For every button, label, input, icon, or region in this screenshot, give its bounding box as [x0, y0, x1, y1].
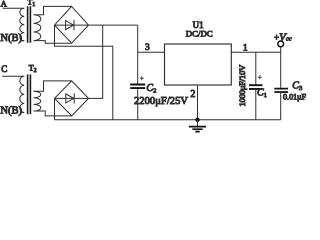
- wire T1 secondary top to bridge top corner: [34, 6, 72, 14]
- wire T2 bridge negative: left corner down to ground rail: [54, 98, 56, 119]
- transformer T2 secondary winding: [34, 91, 41, 111]
- wire T1 bridge negative: left corner down, right, down to ground rail: [55, 25, 113, 120]
- svg-text:C: C: [1, 64, 7, 74]
- ground rail wire: [55, 119, 281, 121]
- svg-text:DC/DC: DC/DC: [186, 28, 213, 38]
- capacitor C3 plates: [274, 89, 288, 92]
- svg-text:T1: T1: [27, 0, 35, 8]
- wire N(B) to T1 primary bottom: [21, 40, 24, 42]
- wire pin 2 to ground rail: [197, 85, 199, 120]
- svg-text:2200μF/25V: 2200μF/25V: [134, 96, 188, 107]
- svg-text:C3: C3: [292, 80, 302, 92]
- output terminal circle: [278, 41, 284, 47]
- wire positive bus drop to pin3 / C2: [137, 25, 139, 84]
- capacitor C2 plates: [130, 85, 145, 89]
- wire pin 3: [138, 51, 165, 53]
- svg-text:T2: T2: [29, 64, 37, 74]
- svg-text:A: A: [1, 0, 8, 9]
- bridge rectifier D2 (T2) diamond: [55, 81, 89, 116]
- junction dot at ground: [195, 118, 199, 122]
- capacitor C1 bottom lead: [255, 90, 257, 120]
- bridge rectifier D1 (T1) diamond: [55, 6, 89, 43]
- svg-text:2: 2: [190, 89, 195, 100]
- transformer T2 core: [28, 74, 31, 114]
- wire T2 secondary top to bridge top corner: [34, 81, 72, 91]
- wire terminal down to C3: [280, 47, 282, 88]
- capacitor C1 top lead: [255, 52, 257, 84]
- svg-text:0.01μF: 0.01μF: [283, 92, 307, 101]
- wire A to T1 primary top: [3, 7, 25, 9]
- wire T2 bridge positive: right corner to positive bus: [89, 25, 103, 98]
- bridge D1 diode symbol: [55, 20, 89, 30]
- svg-text:1000μF/10V: 1000μF/10V: [237, 64, 247, 107]
- transformer T2 primary winding: [20, 76, 24, 112]
- transformer T1 secondary winding: [34, 15, 41, 41]
- svg-text:C2: C2: [146, 83, 156, 95]
- wire T2 secondary bottom to bridge bottom corner: [34, 111, 72, 116]
- svg-text:N(B): N(B): [0, 33, 22, 44]
- ground symbol: [197, 120, 199, 126]
- wire positive bus from T1 bridge right corner: [89, 24, 138, 26]
- capacitor C2 plus sign: [140, 76, 144, 80]
- wire T1 secondary bottom to bridge bottom corner: [34, 41, 72, 44]
- svg-text:N(B): N(B): [0, 105, 22, 116]
- transformer T1 core: [28, 6, 31, 43]
- transformer T1 primary winding: [20, 8, 24, 41]
- wire pin 1 to output terminal: [231, 51, 280, 53]
- capacitor C3 bottom lead: [280, 93, 282, 120]
- capacitor C1 plates: [249, 85, 263, 89]
- wire N(B) to T2 primary bottom: [21, 111, 24, 113]
- svg-text:C1: C1: [257, 87, 267, 99]
- capacitor C2 bottom lead: [137, 89, 139, 120]
- capacitor C1 plus sign: [258, 75, 262, 79]
- wire C to T2 primary top: [2, 75, 24, 77]
- bridge D2 diode symbol: [55, 93, 89, 103]
- DC/DC converter U1 box: [165, 44, 232, 85]
